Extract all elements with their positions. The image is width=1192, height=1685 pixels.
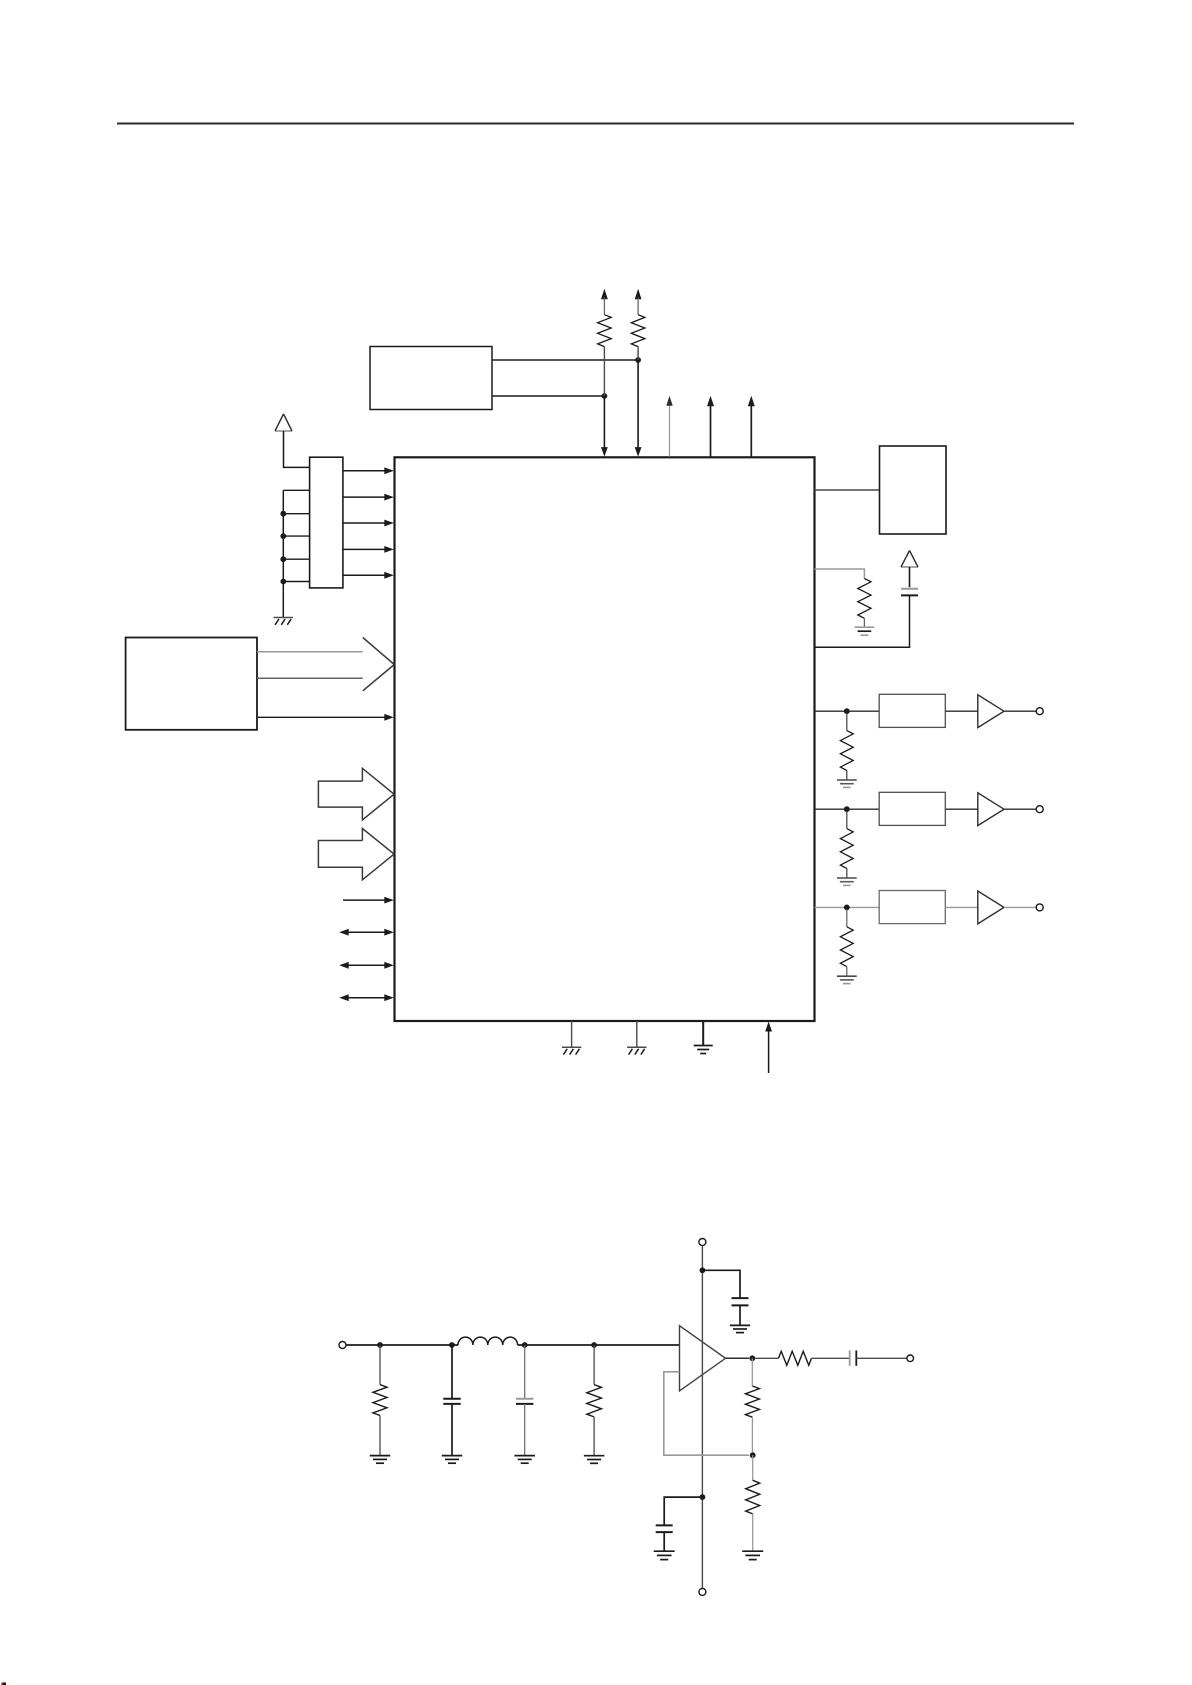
series resistor R11 [779,1351,812,1365]
stub to J1 pin 6 [280,579,309,585]
bidirectional arrow 2 [339,962,394,969]
capacitor C2 [443,1345,460,1456]
signal ground GND7 [837,878,857,885]
supply rail through A4 [701,1246,703,1589]
signal ground GND4 [694,1021,713,1054]
horizontal rule [117,123,1074,125]
signal ground GND8 [837,976,857,983]
output terminal 3 [1036,904,1043,911]
output terminal 1 [1036,708,1043,715]
input arrow [343,897,394,904]
signal ground GND14 [742,1551,763,1559]
node channel 3 [844,905,850,911]
connector box J1 [310,457,343,588]
arrow J1 to U1 line 4 [343,546,394,553]
signal ground GND12 [584,1456,605,1464]
resistor R8 [587,1345,602,1456]
arrow J1 to U1 line 2 [343,494,394,501]
controller box U2 [126,638,257,730]
signal ground GND5 [855,627,875,635]
wire C5 to ground [663,1532,665,1551]
wire X1 lower output to node B [492,395,604,397]
bidirectional arrow 1 [339,929,394,936]
shunt resistor R10 [746,1455,760,1550]
signal ground GND13 [730,1325,750,1332]
regulator box U3 [880,446,947,534]
wire FL1 to buffer [945,710,978,712]
chassis ground GND2 [562,1047,581,1054]
V+ terminal [699,1239,706,1246]
output terminal 2 [1036,806,1043,813]
signal ground GND10 [442,1456,463,1464]
wire U1 to box U3 [815,489,880,491]
wire buffer to output 2 [1004,808,1036,810]
capacitor C6 [850,1350,857,1365]
wire buffer to output 1 [1004,710,1036,712]
load resistor R6 [840,909,853,975]
V- terminal [699,1588,706,1595]
wire FL2 to buffer [945,808,978,810]
feedback wire (gray) [664,1372,749,1455]
output terminal OUT [907,1355,914,1362]
buffer amp A3 [978,891,1004,924]
node feedback [750,1452,756,1458]
wire to C4 [702,1270,740,1298]
supply arrow into U1 bottom [765,1022,772,1074]
bus arrow U2 to U1 [257,638,394,691]
inductor L1 [458,1337,518,1345]
power symbol VCC2 [901,551,918,568]
wire C6 to output terminal [856,1357,907,1359]
pull-up resistor R1 [598,289,612,396]
wire FL3 to buffer [945,906,978,908]
input wire segment 2 [518,1344,680,1346]
wire R11 to C6 [812,1357,850,1359]
op-amp A4 [680,1326,726,1391]
capacitor C4 [732,1298,749,1305]
IC block U1 [395,457,815,1021]
node V+ decoupling [700,1267,706,1273]
bidirectional arrow 3 [339,994,394,1001]
node D3 [522,1342,528,1348]
arrow J1 to U1 line 1 [343,467,394,474]
block arrow input 2 [318,829,394,880]
buffer amp A2 [978,793,1004,826]
wire U1 to filter FL3 [815,906,880,908]
load resistor R4 [840,713,853,779]
signal ground GND9 [370,1456,391,1464]
stub to J1 pin 4 [280,533,309,539]
resistor R3 [858,579,871,627]
node D1 [377,1342,383,1348]
node B junction [602,393,608,399]
arrow J1 to U1 line 3 [343,520,394,527]
wire output dot to R11 [755,1357,779,1359]
wire to C5 [664,1497,702,1525]
filter box FL1 [879,694,945,727]
wire U1 pin to R3 (gray) [815,569,865,579]
chassis ground GND1 [274,618,293,625]
control arrow U2 to U1 [257,714,394,721]
signal ground GND11 [514,1456,535,1464]
power symbol VCC1 [275,414,292,431]
node channel 2 [844,806,850,812]
wire buffer to output 3 [1004,906,1036,908]
wire C1 to U1 pin [815,595,910,647]
ground stub 2 [636,1021,638,1047]
arrow J1 to U1 line 5 [343,572,394,579]
wire U1 to filter FL1 [815,710,880,712]
buffer amp A1 [978,695,1004,728]
chassis ground GND3 [627,1047,646,1054]
load resistor R5 [840,811,853,877]
pull-up resistor R2 [631,289,645,360]
wire U1 to filter FL2 [815,808,880,810]
node D2 [449,1342,455,1348]
wire node B to U1 pin (clock in 1) [601,396,608,457]
wire X1 upper output to node A [492,359,638,361]
output wire A4 [726,1357,750,1359]
signal ground GND6 [837,780,857,787]
ground stub 1 [571,1021,573,1047]
node D4 [591,1342,597,1348]
capacitor C5 [656,1525,673,1532]
output arrow up 3 [748,396,755,457]
input wire segment 1 [346,1344,458,1346]
output arrow up 2 [707,396,714,457]
capacitor C3 [516,1345,533,1456]
signal ground GND15 [654,1551,675,1559]
node channel 1 [844,708,850,714]
output arrow up 1 (gray) [666,396,672,457]
filter box FL3 [879,891,945,924]
wire VCC1 to connector pin 1 [284,431,310,467]
wire VCC2 to C1 [909,567,911,587]
ground bus wire [283,490,309,617]
stub to J1 pin 3 [280,511,309,517]
feedback resistor R9 [745,1358,759,1452]
capacitor C1 [901,589,918,596]
node A junction [635,357,641,363]
oscillator box X1 [370,347,492,410]
node output [749,1355,755,1361]
block arrow input 1 [318,768,394,820]
resistor R7 [373,1345,387,1456]
wire node A to U1 pin (clock in 2) [635,360,642,457]
input terminal IN [339,1342,346,1349]
wire C4 to ground [739,1305,741,1325]
node V- decoupling [700,1494,706,1500]
stub to J1 pin 5 [280,556,309,562]
page corner mark [2,1683,7,1685]
filter box FL2 [879,792,945,825]
